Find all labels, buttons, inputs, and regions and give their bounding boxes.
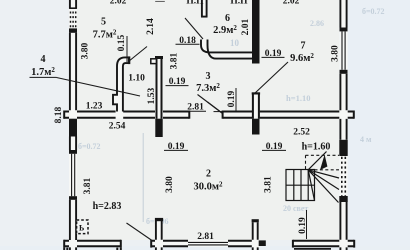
svg-text:2.02: 2.02 (283, 0, 300, 6)
extension lines (127, 36, 307, 239)
svg-text:4: 4 (41, 54, 46, 65)
cut-off labels at top edge (110, 0, 300, 6)
svg-text:0.18: 0.18 (179, 36, 196, 46)
svg-text:4 м: 4 м (360, 135, 372, 144)
rotated dimension labels (54, 18, 341, 234)
svg-text:2.81: 2.81 (197, 232, 214, 242)
window (dashed) top of V1 (71, 12, 76, 29)
wall V5b (bottom) (252, 219, 259, 250)
svg-text:2.54: 2.54 (109, 122, 126, 132)
svg-text:2.02: 2.02 (110, 0, 127, 6)
segment A with V1 crossing (63, 240, 65, 248)
svg-text:1.53: 1.53 (147, 87, 157, 104)
stair direction arrow (320, 155, 327, 171)
svg-text:7: 7 (301, 41, 306, 52)
svg-text:П.П: П.П (186, 0, 204, 6)
svg-text:1.23: 1.23 (86, 102, 103, 112)
svg-text:1.10: 1.10 (128, 74, 145, 84)
svg-text:30.0м2: 30.0м2 (193, 181, 223, 193)
svg-text:б=0.72: б=0.72 (78, 142, 101, 151)
faint bleed text (78, 7, 385, 226)
svg-text:3: 3 (206, 71, 211, 82)
room number and area labels (31, 13, 330, 212)
fan lines (308, 170, 339, 178)
short black piece right of V5b (259, 240, 266, 246)
segment B (150, 240, 152, 248)
staircase (286, 152, 339, 203)
svg-text:3.81: 3.81 (83, 177, 93, 194)
svg-text:0.19: 0.19 (169, 77, 186, 87)
svg-text:2: 2 (206, 169, 211, 180)
svg-text:0.19: 0.19 (168, 142, 185, 152)
svg-text:2.81: 2.81 (187, 103, 204, 113)
svg-text:3.80: 3.80 (165, 176, 175, 193)
wire: second bottom wall line (cut off) (294, 248, 331, 250)
wall V4 (room 6 left wall) (201, 0, 208, 18)
wall V1 (left outer wall) (69, 0, 77, 250)
faint bleed-through pencil line (142, 133, 144, 222)
underlines for dimension labels (30, 44, 287, 150)
wire: thin line at door opening in H1 (214, 111, 223, 113)
wire: inner wall H1 white body left part (64, 111, 191, 119)
wall H1 outlines (main inner horizontal wall) (64, 111, 354, 119)
svg-text:0.19: 0.19 (265, 49, 282, 59)
svg-text:3.80: 3.80 (331, 45, 341, 62)
svg-text:0.19: 0.19 (298, 217, 308, 234)
svg-text:2.86: 2.86 (310, 19, 324, 28)
svg-text:h=1.60: h=1.60 (302, 142, 331, 153)
window (thin double line) (342, 31, 345, 69)
wall V5 middle (252, 93, 260, 135)
svg-text:3.81: 3.81 (264, 176, 274, 193)
dashed landing box (306, 155, 340, 170)
segment C outline (292, 240, 294, 248)
svg-text:20 свет: 20 свет (283, 204, 308, 213)
svg-text:10: 10 (230, 38, 240, 48)
wall V5 top (black pier, rooms 6/7 divider) (252, 0, 260, 64)
svg-text:0.15: 0.15 (117, 34, 127, 51)
svg-text:3.81: 3.81 (170, 52, 180, 69)
below stubs of segment A (64, 248, 121, 250)
window lower (thin double line) (72, 154, 75, 196)
horizontal dimension labels (86, 36, 310, 242)
svg-text:—: — (154, 0, 165, 6)
segment V1..V2..V3..end190 (77, 112, 116, 118)
svg-text:h=2.83: h=2.83 (93, 201, 122, 212)
svg-text:Ь: Ь (79, 224, 84, 233)
wall V3 (between room5 and room7 passage) (151, 56, 163, 137)
stove symbol (dashed box) (77, 220, 88, 234)
wire: inner wall H1 white body right part (222, 111, 354, 119)
black pier below H1 (69, 119, 77, 137)
svg-text:б=0.72: б=0.72 (362, 7, 385, 16)
svg-text:h=1.10: h=1.10 (286, 93, 310, 103)
svg-text:2.01: 2.01 (241, 18, 251, 35)
svg-text:2.52: 2.52 (293, 128, 310, 138)
wire: bottom wall H2 white bodies (64, 240, 122, 247)
wall L (room 6 bottom curved wall) (201, 40, 252, 59)
svg-text:3.80: 3.80 (81, 42, 91, 59)
svg-text:2.14: 2.14 (146, 18, 156, 35)
wall V2 (curved wall of room 4) (113, 56, 130, 111)
svg-text:0.19: 0.19 (227, 90, 237, 107)
svg-text:6: 6 (225, 13, 230, 24)
right stub past V6 (348, 241, 355, 246)
wall V6 (right outer wall) (339, 0, 347, 250)
right segment 222..354 (222, 111, 224, 119)
left stub + cap (63, 111, 65, 119)
svg-text:8.18: 8.18 (54, 106, 64, 123)
window in bottom wall (2.81) (188, 242, 228, 245)
svg-text:П.П: П.П (230, 0, 248, 6)
leader lines (57, 18, 289, 241)
window (dashed) (342, 157, 346, 196)
wall H2 outlines (bottom wall) (64, 240, 355, 250)
wall V3b (bottom, left of 2.81 window) (155, 218, 163, 250)
svg-text:5: 5 (101, 17, 106, 28)
svg-text:0.19: 0.19 (266, 142, 283, 152)
